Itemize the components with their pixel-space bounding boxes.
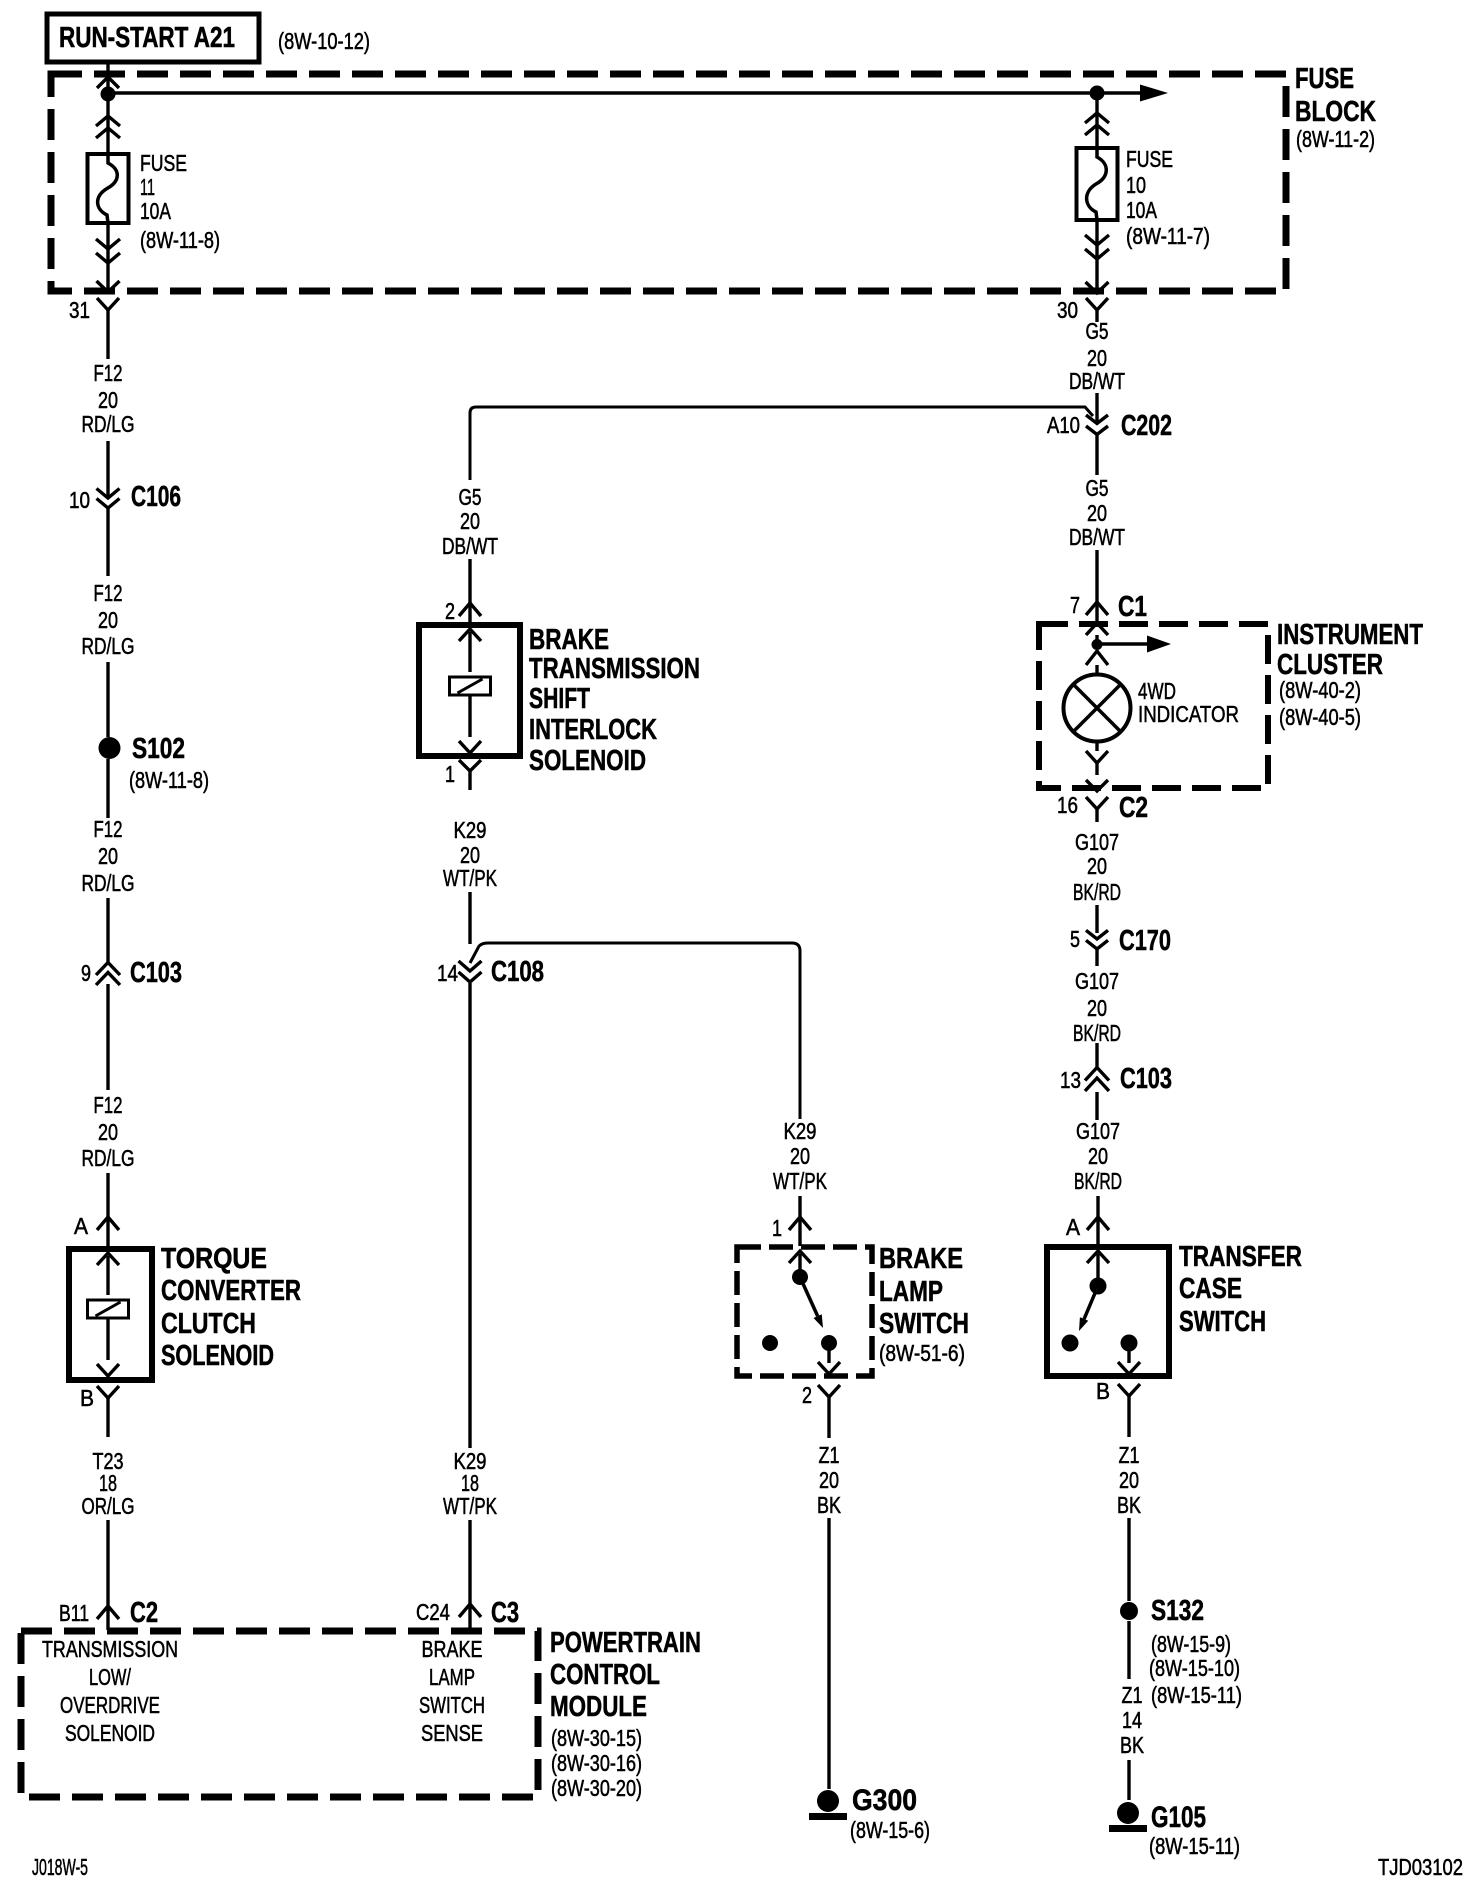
svg-text:20: 20: [1087, 995, 1107, 1021]
svg-text:BRAKE: BRAKE: [422, 1636, 483, 1662]
svg-text:INSTRUMENT: INSTRUMENT: [1277, 619, 1423, 651]
svg-text:RD/LG: RD/LG: [82, 411, 135, 437]
svg-text:20: 20: [1087, 500, 1107, 526]
svg-text:13: 13: [1060, 1067, 1081, 1093]
svg-text:20: 20: [98, 607, 118, 633]
svg-text:20: 20: [98, 843, 118, 869]
svg-text:SWITCH: SWITCH: [419, 1692, 485, 1718]
svg-text:OVERDRIVE: OVERDRIVE: [60, 1692, 160, 1718]
svg-text:S102: S102: [132, 733, 185, 765]
svg-text:F12: F12: [94, 1092, 123, 1118]
svg-text:G105: G105: [1151, 1801, 1206, 1834]
svg-text:16: 16: [1057, 792, 1078, 818]
svg-text:(8W-10-12): (8W-10-12): [278, 28, 370, 54]
svg-text:5: 5: [1070, 926, 1080, 952]
svg-text:FUSE: FUSE: [1126, 146, 1173, 172]
svg-text:G107: G107: [1075, 968, 1119, 994]
svg-text:20: 20: [819, 1467, 839, 1493]
svg-text:C202: C202: [1121, 410, 1172, 442]
svg-text:20: 20: [1088, 1143, 1108, 1169]
svg-text:TRANSMISSION: TRANSMISSION: [529, 653, 700, 685]
svg-text:SHIFT: SHIFT: [529, 683, 590, 715]
svg-text:(8W-15-9): (8W-15-9): [1151, 1631, 1231, 1657]
svg-text:14: 14: [437, 960, 458, 986]
svg-text:10: 10: [69, 487, 90, 513]
svg-text:TORQUE: TORQUE: [161, 1243, 267, 1275]
svg-text:B: B: [1096, 1378, 1110, 1404]
svg-text:C106: C106: [131, 481, 181, 513]
svg-text:K29: K29: [784, 1118, 817, 1144]
svg-text:TRANSMISSION: TRANSMISSION: [42, 1636, 178, 1662]
svg-text:20: 20: [98, 387, 118, 413]
svg-text:A10: A10: [1047, 412, 1080, 438]
svg-text:DB/WT: DB/WT: [1069, 368, 1125, 394]
svg-text:BK/RD: BK/RD: [1073, 1020, 1121, 1046]
svg-text:(8W-30-16): (8W-30-16): [551, 1750, 642, 1776]
svg-text:J018W-5: J018W-5: [32, 1854, 88, 1880]
svg-text:20: 20: [460, 508, 480, 534]
svg-text:BK/RD: BK/RD: [1073, 879, 1121, 905]
svg-text:BRAKE: BRAKE: [529, 624, 609, 656]
svg-text:DB/WT: DB/WT: [1069, 524, 1125, 550]
svg-text:Z1: Z1: [819, 1442, 840, 1468]
svg-text:14: 14: [1122, 1707, 1142, 1733]
svg-text:C2: C2: [1119, 792, 1148, 824]
svg-text:CLUTCH: CLUTCH: [161, 1308, 256, 1340]
svg-text:BLOCK: BLOCK: [1295, 96, 1376, 128]
svg-text:DB/WT: DB/WT: [442, 533, 498, 559]
svg-text:Z1: Z1: [1119, 1442, 1140, 1468]
svg-text:BK: BK: [1120, 1732, 1145, 1758]
svg-text:LOW/: LOW/: [89, 1664, 131, 1690]
svg-text:(8W-51-6): (8W-51-6): [879, 1340, 965, 1366]
svg-text:F12: F12: [94, 816, 123, 842]
svg-text:C1: C1: [1118, 591, 1147, 623]
svg-text:7: 7: [1070, 592, 1080, 618]
svg-text:C108: C108: [491, 956, 544, 988]
svg-text:G300: G300: [852, 1784, 917, 1817]
svg-text:B11: B11: [59, 1600, 89, 1626]
svg-text:20: 20: [790, 1143, 810, 1169]
svg-text:C2: C2: [130, 1597, 158, 1629]
svg-text:30: 30: [1057, 297, 1078, 323]
svg-text:BRAKE: BRAKE: [879, 1243, 963, 1275]
svg-text:WT/PK: WT/PK: [443, 1493, 497, 1519]
svg-text:BK: BK: [817, 1492, 842, 1518]
svg-text:SWITCH: SWITCH: [879, 1308, 969, 1340]
svg-text:C24: C24: [416, 1599, 450, 1625]
svg-text:FUSE: FUSE: [140, 150, 187, 176]
svg-text:S132: S132: [1151, 1595, 1204, 1627]
svg-text:TJD03102: TJD03102: [1378, 1854, 1463, 1880]
svg-text:(8W-11-8): (8W-11-8): [129, 767, 209, 793]
svg-text:SWITCH: SWITCH: [1179, 1306, 1266, 1338]
svg-text:SOLENOID: SOLENOID: [65, 1720, 155, 1746]
svg-text:C103: C103: [130, 957, 182, 989]
svg-text:G107: G107: [1076, 1118, 1120, 1144]
svg-text:11: 11: [140, 174, 155, 200]
svg-text:1: 1: [445, 761, 455, 787]
svg-text:(8W-30-15): (8W-30-15): [551, 1725, 642, 1751]
svg-text:SENSE: SENSE: [421, 1720, 483, 1746]
svg-text:CONVERTER: CONVERTER: [161, 1275, 301, 1307]
svg-text:CASE: CASE: [1179, 1273, 1242, 1305]
svg-text:F12: F12: [94, 360, 123, 386]
svg-text:C103: C103: [1120, 1063, 1172, 1095]
svg-text:(8W-15-6): (8W-15-6): [850, 1817, 930, 1843]
svg-text:(8W-15-10): (8W-15-10): [1149, 1655, 1240, 1681]
svg-text:20: 20: [1119, 1467, 1139, 1493]
svg-text:1: 1: [772, 1215, 782, 1241]
svg-text:G5: G5: [459, 484, 482, 510]
svg-text:(8W-15-11): (8W-15-11): [1151, 1682, 1242, 1708]
svg-text:F12: F12: [94, 580, 123, 606]
svg-text:2: 2: [445, 598, 455, 624]
svg-text:(8W-40-2): (8W-40-2): [1279, 677, 1361, 703]
svg-text:9: 9: [81, 960, 91, 986]
svg-text:POWERTRAIN: POWERTRAIN: [550, 1627, 701, 1659]
svg-text:31: 31: [69, 297, 90, 323]
svg-text:C170: C170: [1119, 925, 1171, 957]
svg-text:(8W-30-20): (8W-30-20): [551, 1775, 642, 1801]
svg-text:TRANSFER: TRANSFER: [1179, 1241, 1302, 1273]
svg-text:OR/LG: OR/LG: [82, 1493, 135, 1519]
svg-text:LAMP: LAMP: [429, 1664, 475, 1690]
svg-text:(8W-11-7): (8W-11-7): [1126, 223, 1210, 249]
svg-text:SOLENOID: SOLENOID: [161, 1340, 274, 1372]
svg-text:B: B: [80, 1385, 94, 1411]
svg-text:(8W-15-11): (8W-15-11): [1149, 1833, 1240, 1859]
svg-text:A: A: [74, 1213, 89, 1239]
svg-text:10: 10: [1126, 172, 1146, 198]
svg-text:(8W-11-8): (8W-11-8): [140, 227, 220, 253]
svg-text:BK/RD: BK/RD: [1074, 1168, 1122, 1194]
svg-text:20: 20: [1087, 853, 1107, 879]
svg-text:K29: K29: [454, 817, 487, 843]
svg-text:G5: G5: [1086, 318, 1109, 344]
svg-text:C3: C3: [491, 1597, 519, 1629]
svg-text:CONTROL: CONTROL: [550, 1659, 660, 1691]
svg-text:RUN-START A21: RUN-START A21: [59, 22, 235, 54]
svg-text:A: A: [1066, 1214, 1081, 1240]
svg-text:BK: BK: [1117, 1492, 1142, 1518]
svg-text:WT/PK: WT/PK: [773, 1168, 827, 1194]
svg-text:G107: G107: [1075, 829, 1119, 855]
svg-text:FUSE: FUSE: [1295, 63, 1354, 95]
svg-text:MODULE: MODULE: [550, 1691, 647, 1723]
svg-text:(8W-11-2): (8W-11-2): [1296, 126, 1375, 152]
svg-text:SOLENOID: SOLENOID: [529, 745, 646, 777]
svg-text:LAMP: LAMP: [879, 1276, 943, 1308]
svg-text:RD/LG: RD/LG: [82, 1145, 135, 1171]
svg-text:(8W-40-5): (8W-40-5): [1279, 704, 1361, 730]
svg-text:RD/LG: RD/LG: [82, 870, 135, 896]
svg-text:WT/PK: WT/PK: [443, 865, 497, 891]
svg-text:INTERLOCK: INTERLOCK: [529, 714, 657, 746]
svg-text:RD/LG: RD/LG: [82, 633, 135, 659]
svg-text:G5: G5: [1086, 475, 1109, 501]
svg-text:2: 2: [802, 1382, 812, 1408]
svg-text:20: 20: [98, 1119, 118, 1145]
svg-text:Z1: Z1: [1122, 1682, 1143, 1708]
svg-text:10A: 10A: [1126, 197, 1157, 223]
svg-text:INDICATOR: INDICATOR: [1138, 701, 1239, 727]
svg-text:10A: 10A: [140, 198, 171, 224]
